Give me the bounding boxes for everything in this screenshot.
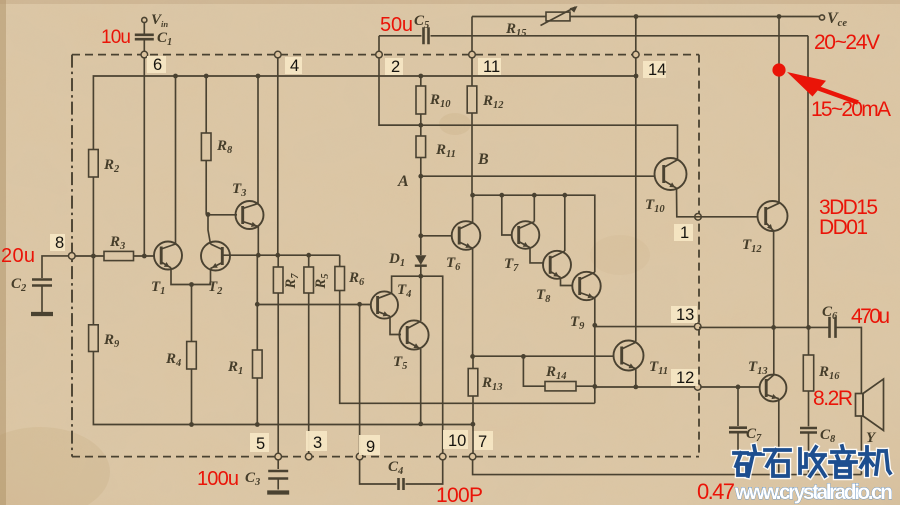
pin 3 circle [305,453,312,460]
svg-text:470u: 470u [851,305,890,328]
transistor T3 [236,201,264,229]
speaker [856,379,884,431]
pin 12 circle [694,384,701,391]
terminal Vce [819,15,824,20]
wire T11 base row [473,355,615,357]
label pin 11 [478,58,501,76]
label R11 [435,142,456,160]
transistor T2 [201,242,230,271]
wire speaker to return [860,416,862,475]
label 50u [380,14,413,36]
wire R1 to bus [256,304,258,424]
wire pin11 column upper [471,17,473,87]
wire T3 emitter to bus [257,227,259,256]
junction T3 emitter bus [256,253,261,258]
wire Vin to C1 [143,23,145,34]
label A [397,173,409,190]
junction T6 base node [418,233,423,238]
wire T13 emitter [778,399,780,475]
junction R10-R11 node [418,123,423,128]
junction bus T8col [562,193,567,198]
wire T4 base row [257,304,371,306]
junction R7 top [275,253,280,258]
label 470u [851,305,890,328]
red current dot [772,63,785,76]
label R13 [481,375,503,393]
IC package dashed outline top edge [72,54,699,56]
label pin 1 [674,224,693,242]
IC package dash-dot outline left edge [71,55,73,457]
capacitor C1 [135,35,154,39]
diode D1 [415,255,427,266]
junction output x808 [806,325,811,330]
label C7 [746,426,762,444]
capacitor C4 [399,478,404,490]
wire R11 to A node [420,158,422,177]
IC package dashed outline bottom edge [72,456,699,458]
label pin 4 [285,57,302,75]
label DD01 [819,216,868,239]
IC package dashed outline right edge [698,55,700,457]
label pin 14 [643,61,666,79]
svg-text:6: 6 [153,56,162,74]
junction rail-T1col [173,74,178,79]
resistor R5 [304,267,314,293]
wire node down to R9 [92,256,94,325]
wire T3 base wire [208,214,237,216]
wire T10 emitter to pin1 [677,188,758,217]
wire R1 column top [256,255,258,304]
junction bus T7base [499,193,504,198]
wire R12 to collector bus [471,113,473,195]
label R14 [545,364,567,382]
svg-text:DD01: DD01 [819,216,868,239]
label R16 [818,364,840,382]
junction rail-T3col [256,74,261,79]
label T3 [232,181,246,199]
wire T2 emitter [192,269,211,285]
junction T4-T5 collector node [418,274,423,279]
label C3 [245,470,260,488]
label C8 [820,427,836,445]
transistor T10 [655,158,687,190]
pin 7 circle [469,453,476,460]
junction R14 tap [592,384,597,389]
pin 8 circle [69,253,76,260]
label T1 [151,279,165,297]
label 20-24V [814,31,880,54]
wire pin12 row [595,386,760,388]
wire C3 to ground [277,480,279,490]
svg-text:10u: 10u [101,27,131,48]
wire collector node to T4 collector [392,276,421,293]
wire R10 top stub [420,76,422,86]
label R8 [216,138,233,156]
transistor T7 [512,221,540,249]
label R3 [109,234,125,252]
pin 2 circle [376,51,383,58]
resistor R3 [104,251,134,260]
label Vin [151,12,168,29]
label T9 [570,314,585,332]
label T7 [504,256,519,274]
junction R5 top [306,253,311,258]
pin 1 circle [695,214,702,221]
wire R8 to T2 collector node [205,161,207,215]
label 0.47 [697,479,735,504]
resistor R4 [187,342,197,370]
pin 14 circle [633,51,640,58]
wire C6 to speaker [836,327,862,393]
capacitor C2 [32,280,52,286]
resistor R8 [201,133,211,161]
junction T6em R13 node [470,354,475,359]
wire pin2 down and over to R10 bottom [379,58,421,125]
junction T12 emitter output [771,325,776,330]
wire collector bus y195 [473,195,595,272]
wire output row right [699,326,829,328]
label pin 9 [359,435,380,456]
label 10u [101,27,131,48]
label 15-20mA [811,98,891,121]
resistor R16 [803,355,813,391]
wire D1 cathode to collector node [420,266,422,277]
junction rail-x636 [634,74,639,79]
wire T9 emitter [594,298,596,325]
junction rail-R8 [204,74,209,79]
label B [477,151,489,168]
svg-text:10: 10 [448,432,466,450]
resistor R11 [416,136,426,158]
watermark url [734,481,893,504]
wire T8 emitter to T9 base [561,278,574,286]
svg-text:100u: 100u [197,468,239,490]
label pin 2 [385,58,403,76]
wire T12 emitter [773,231,775,328]
wire T7 collector [533,195,535,221]
label C2 [11,276,27,294]
red arrow [787,72,858,103]
svg-text:1: 1 [680,224,689,242]
svg-text:www.crystalradio.cn: www.crystalradio.cn [734,481,893,504]
wire pin14 column [635,17,637,342]
wire R16 stubs [808,327,810,426]
subtle stains [439,113,471,135]
junction T3 base node [206,212,211,217]
wire A node down to T6 base node [420,176,422,236]
label R2 [103,157,120,175]
label R7 [283,273,301,290]
wire output row to pin13 [595,326,699,328]
transistor T1 [154,242,182,270]
transistor T9 [572,272,600,300]
ground bar below C2 [31,312,53,316]
resistor R1 [253,350,263,378]
wire T9 emitter feedback drop [594,325,596,403]
ground bar below C3 [267,490,289,494]
transistor T11 [614,341,644,371]
junction T5 emitter bus [418,422,423,427]
pin 9 circle [356,453,363,460]
transistor T12 [758,201,788,231]
junction rail-R10 [418,74,423,79]
capacitor C4 loop [360,460,443,484]
label T8 [536,287,551,305]
wire R13 stubs [472,356,474,453]
label pin 12 [671,369,698,387]
pin 4 circle [275,51,282,58]
capacitor C6 [830,317,836,338]
svg-text:20u: 20u [1,245,35,267]
resistor R15 [541,6,578,26]
wire C8 to return [808,434,810,475]
label pin 5 [250,433,269,453]
wire pin5 to C3 [277,460,279,469]
transistor T5 [399,320,428,349]
label 100u [197,468,239,490]
junction R14 top [521,354,526,359]
wire pin8 to C2 [42,256,69,278]
resistor R2 [89,150,99,178]
wire T10 collector [380,125,678,160]
wire T6 emitter column [472,248,474,356]
pin 6 circle [141,51,148,58]
resistor R9 [89,325,99,352]
capacitor C7 [729,428,747,433]
label R10 [429,92,451,110]
svg-text:8: 8 [55,234,64,252]
wire R14 left lead [523,356,545,386]
label T4 [397,282,411,300]
svg-text:7: 7 [478,433,487,451]
resistor R14 [545,382,576,391]
label T2 [208,279,223,297]
wire pin9 column [359,304,361,453]
svg-text:12: 12 [676,369,694,387]
svg-text:B: B [477,151,489,168]
svg-text:9: 9 [366,438,375,456]
label pin 3 [306,431,327,452]
label R12 [482,93,504,111]
junction emitter tail [189,282,194,287]
wire C1 to pin6 [143,41,145,52]
label T10 [645,197,665,215]
label 3DD15 [819,196,878,219]
label C5 [414,13,429,31]
transistor T6 [452,221,481,250]
wire T7 emitter to T8 base [530,248,544,263]
wire R6 to feedback line [340,291,595,404]
label R4 [165,351,181,369]
darker left edge [0,0,6,505]
junction top rail at x779 [777,14,782,19]
label R5 [313,274,331,290]
label pin 7 [472,431,493,451]
label T12 [742,237,762,255]
label Vce [827,10,847,29]
label Y [866,430,877,446]
pin 13 circle [694,323,701,330]
junction pin9 T4 base [357,302,362,307]
wire T1 collector [175,76,177,244]
wire T1 emitter [171,268,192,285]
label R15 [505,21,527,39]
wire R5 to pin3 [308,255,310,453]
label T6 [446,255,461,273]
label T13 [748,359,768,377]
transistor T13 [760,375,787,402]
wire C2 to ground [41,287,43,313]
svg-text:11: 11 [483,58,500,76]
wire bus corner to R6 [339,255,341,266]
resistor R6 [335,267,345,291]
junction T9 emitter node [592,323,597,328]
wire T13 collector [773,327,775,375]
capacitor C3 [268,471,288,479]
capacitor C5 [424,27,429,44]
wire C7 to return [737,433,739,474]
resistor R10 [416,86,426,114]
svg-text:13: 13 [676,306,694,324]
wire T6 base wire [421,235,452,237]
svg-text:20~24V: 20~24V [814,31,880,54]
label D1 [388,251,405,269]
label 20u [1,245,35,267]
wire Vcc drop to T12 [778,17,780,204]
resistor R7 [273,267,283,293]
wire collector node to T5 [420,276,422,321]
label pin 13 [671,306,697,324]
wire R2 to node [92,177,94,256]
pin 5 circle [275,453,282,460]
wire T5 emitter to bus [420,349,422,425]
label pin 8 [50,234,65,252]
wire pin2 up to C5 [378,36,380,52]
svg-text:8.2R: 8.2R [813,387,853,410]
transistor T8 [543,251,571,279]
label R6 [348,270,365,288]
wire R3 to T1 base [134,255,156,257]
wire R4 to bus [191,369,193,425]
wire T2 base bus [222,254,339,256]
svg-text:3: 3 [313,434,322,452]
junction bus T7col [532,193,537,198]
wire R14 right lead [576,385,595,387]
wire T3 collector [257,76,259,204]
watermark kuangshi shouyinji [734,446,890,477]
svg-text:5: 5 [256,435,265,453]
wire C5 line [379,36,808,328]
wire pin6 down to T1 base node [143,58,145,256]
junction top rail at x636 [634,14,639,19]
label 8.2R [813,387,853,410]
wire T4 emitter to T5 base [390,316,401,334]
wire collector node to pin10 column [421,276,443,453]
junction R1 top [255,302,260,307]
label C6 [822,304,838,322]
svg-text:15~20mA: 15~20mA [811,98,891,121]
wire pin7 to speaker return [473,460,862,475]
junction T11 emitter node [633,385,638,390]
junction bus T6 [470,193,475,198]
svg-text:50u: 50u [380,14,413,36]
junction R13 bus [471,422,476,427]
svg-text:14: 14 [648,61,666,79]
label R9 [103,332,120,350]
wire D1 anode stub [420,236,422,255]
wire R9 to bottom bus corner [93,352,473,425]
label pin 10 [443,430,468,450]
wire pin4 down to feedback bus [277,58,279,255]
label 100P [436,484,483,505]
wire R7 to pin5 [277,255,279,453]
junction R3-R9 node [91,254,96,259]
terminal Vin [142,17,147,22]
junction R4 bus [189,422,194,427]
junction R1 bus [255,422,260,427]
capacitor C8 [800,428,817,433]
resistor R13 [468,369,478,397]
label C4 [388,459,403,477]
wire R10 to R11 [420,114,422,136]
wire T8 collector [564,195,566,251]
wire Vcc top rail [472,16,822,18]
wire T7 base drop [502,195,512,235]
svg-text:100P: 100P [436,484,483,505]
svg-text:0.47: 0.47 [697,479,735,504]
resistor R12 [467,86,477,113]
label R1 [227,359,243,377]
svg-text:A: A [397,173,409,190]
svg-text:4: 4 [290,57,299,75]
label C1 [157,30,172,48]
transistor T4 [371,291,398,318]
svg-text:2: 2 [391,58,400,76]
wire T6 collector [472,195,474,223]
junction input node [142,254,147,259]
wire T2 collector to R8 node [208,215,211,245]
wire inner rail y76 [93,76,636,150]
wire T11 emitter [635,369,637,387]
pin 11 circle [469,51,476,58]
label T5 [393,354,407,372]
wire tail to R4 [191,285,193,342]
wire R8 top stub [205,76,207,133]
label pin 6 [147,56,166,74]
junction A node [418,174,423,179]
junction C7 tap [736,385,741,390]
label T11 [649,359,668,377]
pin 10 circle [439,453,446,460]
wire A row to T10 base [421,175,656,177]
wire pin8 to R3 [75,255,104,257]
wire C7 stem [737,387,739,426]
